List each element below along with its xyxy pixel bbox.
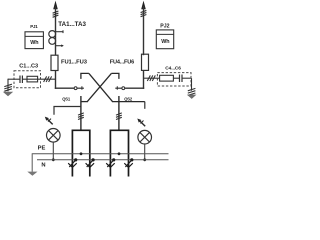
wire C1 branch to earth xyxy=(7,79,9,92)
label PJ2 xyxy=(160,23,169,29)
slashes on QS1 output xyxy=(78,113,84,120)
wire C1 branch horizontal xyxy=(8,78,56,80)
wire right feeder to QS2 contact xyxy=(125,87,145,89)
svg-text:PJ2: PJ2 xyxy=(160,23,169,29)
fuse FU4...FU6 xyxy=(142,54,149,70)
PE bus xyxy=(32,153,168,155)
incoming feeder arrow (left supply) xyxy=(53,1,58,10)
wire QS1 output vertical xyxy=(80,96,82,130)
wire PE bus to earth xyxy=(31,153,33,172)
transformer T1 tank xyxy=(72,130,89,176)
capacitor bank C1...C3 dashed enclosure xyxy=(14,71,41,88)
slashes on QS2 output xyxy=(116,113,122,120)
three-phase slashes on left feeder xyxy=(53,11,59,17)
label C1...C3 xyxy=(19,64,38,70)
svg-text:N: N xyxy=(41,163,45,169)
plug arrow right lamp xyxy=(137,119,145,127)
N bus xyxy=(37,159,169,161)
plug arrow left lamp xyxy=(45,117,53,125)
wire C4 branch to earth xyxy=(191,78,193,91)
wire left feeder below fuse xyxy=(55,71,57,89)
label C4...C6 xyxy=(165,66,181,72)
QS1 contact circle xyxy=(74,87,77,90)
three-phase slashes C1 branch xyxy=(44,76,52,82)
QS1 bottom bar xyxy=(81,101,88,103)
label FU1...FU3 xyxy=(61,59,88,65)
svg-text:C1...C3: C1...C3 xyxy=(19,64,38,70)
label N xyxy=(41,163,45,169)
wire right feeder vertical xyxy=(143,6,145,55)
wire left lamp to N bus xyxy=(52,142,54,160)
label PE xyxy=(38,146,46,152)
junction left lamp on N xyxy=(52,158,55,161)
QS2 changeover top bar xyxy=(111,73,119,79)
outgoing switch on T2 leg 2 xyxy=(124,158,133,167)
slashes on left earth lead xyxy=(4,84,12,91)
capacitor C4...C6 plates xyxy=(180,75,183,83)
discharge resistor in C1 box xyxy=(27,76,38,82)
svg-text:PJ1: PJ1 xyxy=(30,24,38,29)
svg-text:C4...C6: C4...C6 xyxy=(165,66,181,72)
transformer T2 tank xyxy=(110,130,128,176)
wire left feeder vertical xyxy=(55,6,57,55)
wire right feeder below fuse xyxy=(143,71,145,89)
svg-text:Wh: Wh xyxy=(30,40,38,46)
lamp HL2 xyxy=(138,130,152,144)
wire left lamp feed xyxy=(54,107,81,115)
three-phase slashes on right feeder xyxy=(141,10,147,16)
label PJ1 xyxy=(30,24,38,29)
QS2 contact circle xyxy=(122,87,125,90)
wire C4 branch horizontal xyxy=(144,77,192,79)
crossover diagonal A xyxy=(89,73,113,101)
svg-text:PE: PE xyxy=(38,146,46,152)
junction right lamp on N xyxy=(143,158,146,161)
label QS1 xyxy=(62,97,71,102)
QS2 bottom bar and right lamp feed xyxy=(112,101,145,103)
svg-text:QS1: QS1 xyxy=(62,97,71,102)
incoming feeder arrow (right supply) xyxy=(141,1,146,10)
svg-text:FU4...FU6: FU4...FU6 xyxy=(110,60,134,66)
wire QS2 output vertical xyxy=(118,96,120,130)
svg-text:Wh: Wh xyxy=(161,39,169,45)
energy meter PJ2 (Wh) xyxy=(156,30,173,49)
outgoing switch on T2 leg 1 xyxy=(106,158,115,167)
QS1 fixed contact tick xyxy=(81,86,83,89)
svg-text:QS2: QS2 xyxy=(124,96,133,101)
slashes on right earth lead xyxy=(188,88,196,95)
earth arrow left capacitor bank xyxy=(3,92,13,97)
lamp HL1 xyxy=(47,129,61,143)
capacitor bank C4...C6 dashed enclosure xyxy=(157,73,191,86)
discharge resistor in C4 box xyxy=(160,75,174,81)
label TA1...TA3 xyxy=(58,21,86,28)
current transformer TA1...TA3 xyxy=(49,31,56,45)
wire right lamp feed drop xyxy=(144,102,146,109)
earth arrow right capacitor bank xyxy=(187,95,197,99)
outgoing switch on T1 leg 1 xyxy=(68,158,77,167)
QS2 fixed contact tick xyxy=(116,86,118,89)
CT secondary taps xyxy=(56,30,64,45)
wire left feeder to QS1 contact xyxy=(55,87,75,89)
earth arrow PE xyxy=(27,172,37,176)
crossover diagonal B xyxy=(87,73,111,101)
label FU4...FU6 xyxy=(110,60,134,66)
QS1 changeover top bar xyxy=(81,73,89,79)
fuse FU1...FU3 xyxy=(51,55,58,70)
outgoing switch on T1 leg 2 xyxy=(86,158,95,167)
svg-text:FU1...FU3: FU1...FU3 xyxy=(61,59,88,65)
wire right lamp to N bus xyxy=(144,144,146,160)
capacitor C1...C3 plates xyxy=(20,76,22,84)
QS1 blade xyxy=(77,87,84,89)
QS2 blade xyxy=(115,87,122,89)
junction dots on PE bus xyxy=(80,152,121,155)
three-phase slashes C4 branch xyxy=(147,75,155,81)
energy meter PJ1 (Wh) xyxy=(25,32,43,49)
label QS2 xyxy=(124,96,133,101)
svg-text:TA1...TA3: TA1...TA3 xyxy=(58,21,86,28)
